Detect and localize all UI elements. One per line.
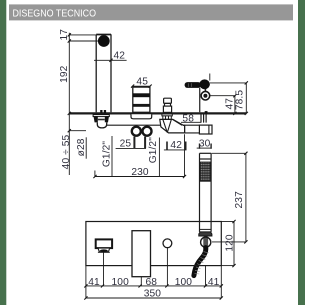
board left ext (85, 266, 87, 298)
svg-text:45: 45 (136, 76, 148, 87)
svg-text:68: 68 (146, 277, 158, 288)
svg-text:41: 41 (208, 277, 220, 288)
handshower wand (200, 153, 212, 232)
bottom dim row 1 (84, 284, 223, 287)
dim 45 (131, 85, 152, 88)
plan holder circle (163, 239, 172, 248)
svg-text:40 ÷ 55: 40 ÷ 55 (61, 134, 72, 169)
svg-text:58: 58 (182, 114, 194, 125)
svg-text:G1/2": G1/2" (101, 141, 112, 167)
valve bonnet dot (203, 94, 207, 98)
green stripe right (298, 0, 305, 305)
dim 237 line (245, 153, 247, 242)
svg-text:30: 30 (199, 139, 211, 150)
stem group (140, 277, 142, 286)
hose ribs (195, 252, 209, 274)
valve stem (199, 88, 201, 112)
manifold bottom line (176, 132, 199, 134)
svg-text:192: 192 (59, 65, 70, 83)
spout shank nut (93, 115, 109, 123)
dim line 78.5 (245, 83, 247, 114)
svg-text:41: 41 (88, 277, 100, 288)
svg-text:100: 100 (112, 277, 130, 288)
o28 underline (85, 137, 87, 158)
hose white halo (194, 247, 206, 275)
plan spout base line (98, 251, 110, 253)
dim 58 underline (181, 121, 201, 123)
handshower holder above deck (163, 98, 171, 112)
dim 25 ext bars (134, 137, 145, 149)
funnel V lines (163, 120, 182, 133)
svg-text:120: 120 (224, 234, 235, 252)
tick deck bottom (68, 129, 71, 132)
bottom dim row 2 (350) (84, 296, 223, 299)
wand knurl (200, 162, 210, 181)
extension line spout top (69, 34, 111, 36)
extension line outlet center (69, 40, 98, 42)
plan spout ellipse (100, 249, 108, 252)
cartridge joint line (133, 104, 150, 107)
extension stems plan (86, 248, 221, 298)
svg-text:350: 350 (144, 289, 162, 300)
svg-text:42: 42 (114, 50, 126, 61)
manifold top line (107, 124, 199, 126)
dim line 47 (234, 96, 236, 114)
lever knob (199, 79, 210, 89)
pipe end block (199, 125, 212, 134)
knob top extension line (209, 74, 211, 81)
dim 25 line (116, 147, 146, 149)
dim 30 wand ext (212, 152, 246, 154)
spout shank bottom (97, 122, 106, 128)
plan spout trapezoid (98, 248, 110, 251)
ball joint inner (203, 237, 208, 247)
plan view board (86, 222, 221, 266)
union nut circle A (132, 127, 141, 136)
dim 230 (93, 134, 186, 178)
plan spout flange (96, 239, 112, 248)
plan group rect (132, 231, 151, 277)
svg-text:230: 230 (131, 167, 149, 178)
svg-text:100: 100 (175, 277, 193, 288)
svg-text:42: 42 (170, 140, 182, 151)
cartridge dark band (133, 93, 150, 97)
cartridge escutcheon (131, 114, 152, 119)
dim 42 row bars (167, 142, 186, 151)
lever highlights (188, 83, 191, 87)
board ext bottom (221, 265, 234, 267)
ticks (233, 94, 236, 97)
knob to bonnet stub (204, 89, 206, 92)
stem circle (166, 248, 168, 286)
ball joint (201, 237, 211, 247)
stem spout (103, 252, 105, 286)
tick outlet center (68, 39, 71, 42)
wand flare (199, 232, 212, 236)
spout base dots (100, 110, 102, 113)
lever bar (185, 82, 201, 88)
dim 42 row line (164, 149, 187, 151)
pipe joint line (184, 125, 186, 133)
tick deck top (68, 112, 71, 115)
dim 47 / 78.5 (210, 81, 248, 115)
valve deck dot (205, 111, 208, 113)
dim 42 line (94, 59, 127, 61)
extension bonnet (210, 95, 235, 97)
G label underline 1 (111, 136, 113, 176)
board right ext (220, 266, 222, 298)
holder funnel (160, 119, 185, 132)
dim 120 line (233, 222, 235, 266)
extension knob (210, 82, 246, 84)
svg-text:237: 237 (234, 191, 245, 209)
ball ext line (212, 241, 246, 243)
deck line (69, 112, 246, 114)
pipe end cap line (208, 125, 210, 134)
dimension line left (17/192/40-55) (68, 33, 70, 175)
ticks 237 (244, 152, 247, 244)
green stripe left (0, 0, 6, 305)
spout outlet (98, 35, 110, 47)
svg-text:78.5: 78.5 (235, 90, 246, 110)
holder flange below deck (162, 114, 172, 116)
svg-text:17: 17 (59, 29, 70, 41)
holder nut (163, 116, 172, 119)
hose side view (194, 248, 206, 276)
valve shank lines (201, 114, 206, 122)
svg-text:G1/2": G1/2" (148, 137, 159, 163)
G label underline 2 (158, 138, 160, 177)
extension line deck bottom (69, 130, 86, 132)
dim 30 line (197, 147, 212, 149)
svg-text:25: 25 (120, 139, 132, 150)
svg-text:ø28: ø28 (76, 138, 87, 156)
union nut circle B (143, 127, 152, 136)
header bar (9, 4, 293, 20)
spout column (95, 35, 97, 112)
valve bonnet circle (201, 91, 210, 100)
cartridge body (133, 87, 150, 112)
tick 42 (109, 59, 112, 62)
tick 17 top (68, 33, 71, 36)
svg-text:DISEGNO TECNICO: DISEGNO TECNICO (13, 9, 97, 20)
board ext top (221, 221, 234, 223)
stem 309 (205, 266, 207, 286)
